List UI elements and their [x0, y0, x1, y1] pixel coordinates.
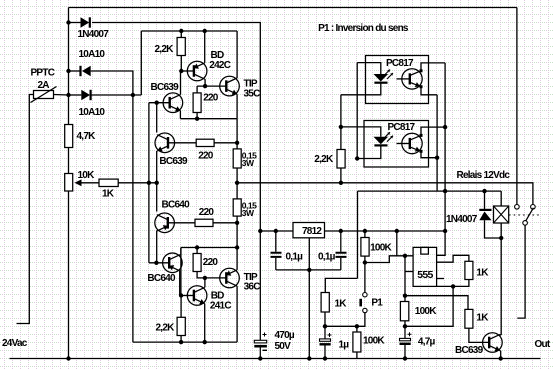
wire TIP36C base lead: [205, 277, 226, 279]
svg-text:0,1µ: 0,1µ: [318, 252, 336, 263]
wire driver top rail: [141, 30, 237, 32]
svg-text:242C: 242C: [209, 60, 230, 71]
resistor 220 no4: [193, 254, 201, 272]
wire base divider left rail: [148, 103, 150, 263]
svg-text:10A10: 10A10: [79, 107, 106, 118]
wire 220 no4 bottom: [197, 272, 205, 278]
svg-text:PPTC: PPTC: [31, 68, 55, 79]
wire emitter bus top half: [180, 118, 237, 120]
svg-text:4,7K: 4,7K: [77, 131, 97, 142]
wire BC639 no2 collector line: [156, 103, 158, 133]
svg-text:10A10: 10A10: [79, 49, 106, 60]
wire 100K left bottom: [364, 256, 366, 262]
svg-text:1µ: 1µ: [339, 340, 350, 351]
wire emitters to relay bus: [436, 190, 438, 192]
junction LED no2 anode: [339, 125, 343, 129]
junction wiper / base divider left: [147, 181, 151, 185]
svg-text:Out: Out: [535, 339, 551, 350]
wire BD242C emitter up: [204, 31, 206, 63]
diode 1N4007 main rectifier: [81, 17, 90, 27]
svg-text:BC639: BC639: [455, 345, 484, 356]
wire 2,2K opto bottom: [340, 168, 342, 183]
transistor BC640 no1: [155, 213, 175, 233]
wire 0,1u no1 top: [275, 231, 277, 252]
svg-text:220: 220: [203, 257, 219, 268]
wire base stub no2: [397, 143, 410, 145]
junction relay / BC639 collector: [499, 236, 503, 240]
junction 220 no2 / 0,15 chain: [235, 141, 239, 145]
wire LED1 cathode / LED2 anode link upper: [340, 95, 342, 150]
diode 1N4007 no2 flyback: [479, 210, 491, 220]
resistor 220 no2: [196, 139, 214, 146]
junction relay bus / +12V riser: [443, 189, 447, 193]
wire PPTC to left bus: [54, 94, 69, 97]
wire 1K lower to BC639 base: [469, 328, 489, 342]
svg-text:BC640: BC640: [162, 200, 191, 211]
wire BC640 no1 base to 220 no3: [168, 222, 195, 224]
resistor 4,7K: [65, 125, 73, 148]
svg-text:Relais 12Vdc: Relais 12Vdc: [457, 170, 511, 181]
svg-text:36C: 36C: [244, 282, 261, 293]
wire 100K third bottom: [356, 352, 358, 359]
wire driver bottom rail: [133, 341, 237, 343]
junction 555 pins 2-6 tie: [403, 254, 407, 258]
transistor BD242C: [187, 61, 207, 81]
svg-text:BC639: BC639: [151, 82, 180, 93]
wire 0,15 no1 to output bus: [236, 168, 238, 183]
wire BC640 no1 emitter down: [156, 231, 158, 263]
transistor TIP36C: [220, 268, 240, 288]
potentiometer 10K: [65, 174, 73, 192]
wire opto2 emitter: [421, 151, 437, 157]
wire BD242C base lead: [181, 70, 194, 72]
junction output bus / 0,15: [235, 181, 239, 185]
junction 10A10 no1: [66, 69, 70, 73]
junction negative drop / diode line: [131, 93, 135, 97]
wire +12V right riser: [444, 63, 446, 231]
wire 2,2K no2 bottom: [180, 336, 182, 343]
junction 1K / 1u: [323, 324, 327, 328]
potentiometer wiper arrow: [75, 179, 82, 186]
wire LED no1 cathode: [341, 84, 381, 95]
wire P1 top: [364, 263, 366, 293]
LED no1 of PC817 no1: [374, 70, 394, 83]
phototransistor PC817 no2: [402, 133, 423, 153]
svg-text:1K: 1K: [476, 268, 489, 279]
resistor 1K upper: [465, 261, 473, 279]
wire emitter chain upper: [236, 119, 238, 149]
wire 2,2K no1 bottom: [180, 56, 182, 72]
wire wiper line to divider: [118, 182, 157, 184]
wire caps ground line: [276, 269, 341, 271]
wire BC640 no2 base lead: [149, 262, 169, 264]
resistor 2,2K no1: [177, 38, 185, 56]
wire opto1 emitter: [421, 87, 437, 95]
wire 220 no2 to emitter chain: [214, 142, 237, 144]
wire relay bottom: [500, 223, 502, 238]
wire P1 bottom to gnd cap bus: [325, 313, 365, 327]
wire +12V to 555 pin line: [396, 231, 398, 256]
svg-text:35C: 35C: [244, 89, 261, 100]
junction +12V / right riser: [443, 229, 447, 233]
junction 220 no1 / emitter bus: [195, 117, 199, 121]
wire LED1 anode / LED2 cathode link: [356, 63, 358, 159]
transistor BC639 output: [483, 333, 503, 353]
svg-text:PC817: PC817: [388, 122, 416, 133]
wire BC639 no2 emitter down: [156, 151, 158, 183]
resistor 1K timing: [321, 293, 329, 313]
junction 4,7u / ground bus: [403, 356, 407, 360]
wire emitter riser: [436, 95, 438, 191]
wire BC639 emitter down: [499, 351, 502, 359]
junction emitters tied: [435, 156, 439, 160]
transistor BC639 no2: [155, 133, 175, 153]
wire BC640 no2 collector up: [180, 248, 181, 256]
junction +12V / 100K left: [363, 229, 367, 233]
wire 24Vac terminal 1 to PPTC: [17, 95, 34, 324]
wire regulator input: [260, 230, 293, 232]
junction relay bus / 1N4007 no2: [482, 189, 486, 193]
junction 100K pullup bottom: [355, 324, 359, 328]
wire right riser from top rail to switch: [516, 8, 518, 205]
resistor 100K left: [361, 238, 369, 257]
junction 10A10 no2 / PPTC: [66, 93, 70, 97]
wire 220 no1 top: [196, 86, 198, 93]
resistor 1K wiper: [99, 179, 118, 186]
wire 555 gnd / 1K upper bottom: [437, 280, 469, 287]
wire emitter chain lower: [236, 216, 238, 270]
junction rail / 2,2K no1: [179, 29, 183, 33]
wire 1N4007 no2 anode to relay bottom: [485, 220, 502, 238]
resistor 1K lower: [465, 309, 473, 328]
wire 2,2K no2 top: [180, 296, 182, 318]
junction gnd line / ground bus: [307, 356, 311, 360]
svg-text:1K: 1K: [335, 299, 348, 310]
diode 10A10 no1: [81, 66, 91, 76]
wire BC639 no1 emitter riser: [179, 111, 181, 119]
wire 100K mid bottom: [404, 321, 406, 327]
junction left bus / bottom bus: [66, 356, 70, 360]
wire base stub no1: [397, 78, 410, 80]
relay coil 12Vdc: [494, 206, 509, 223]
wire stub: [324, 292, 326, 294]
junction wiper / base divider right: [155, 181, 159, 185]
wire +12V to 555 pin 4-8: [437, 231, 446, 255]
resistor 100K third: [353, 332, 361, 352]
junction 1N4007 anode: [66, 20, 70, 24]
svg-text:220: 220: [198, 151, 214, 162]
capacitor 4,7u electrolytic: [400, 326, 412, 358]
wire BD241C emitter down: [204, 304, 206, 343]
wire LED no2 anode: [341, 127, 381, 137]
junction +12V / 0,1u no2: [339, 229, 343, 233]
wire 4,7K to 10K pot: [68, 148, 70, 174]
wire TIP36C collector down to bottom rail: [236, 286, 238, 342]
resistor 0,15 3W no1: [233, 149, 241, 168]
transistor TIP35C: [220, 76, 240, 96]
svg-text:2A: 2A: [38, 80, 50, 91]
svg-text:2,2K: 2,2K: [314, 154, 334, 165]
resistor 100K mid: [400, 302, 408, 321]
wire to 1K top: [325, 278, 357, 292]
junction BC639 emitter / ground bus: [499, 356, 503, 360]
wire BC640 no2 emitter down: [179, 271, 181, 296]
junction bottom rail / BD241C emitter: [203, 340, 207, 344]
PPTC fuse 2A: [34, 91, 54, 99]
resistor 220 no1: [193, 93, 201, 113]
svg-text:470µ: 470µ: [275, 330, 295, 341]
wire to 10A10 no2: [69, 94, 82, 96]
wire 2,2K no1 top: [180, 31, 182, 38]
capacitor 0,1u no2: [336, 231, 347, 257]
junction BC640 no1 emitter / BC640 no2 base: [154, 261, 158, 265]
svg-text:P1 : Inversion du sens: P1 : Inversion du sens: [318, 23, 409, 34]
wire relay top: [500, 191, 502, 206]
wire output bus to switch NO contact: [237, 183, 533, 205]
wire relay bus drop to 1K: [357, 191, 359, 278]
IC 555 timer box: [413, 247, 437, 286]
wire BD241C base lead: [181, 295, 194, 297]
svg-text:3W: 3W: [242, 208, 255, 218]
junction 100K left / P1 / 555 trigger: [363, 260, 367, 264]
push button P1: [359, 293, 367, 313]
optocoupler PC817 no1 box: [366, 56, 429, 104]
dotted actuator link: [509, 214, 541, 216]
wire LED no2 cathode: [357, 146, 381, 158]
wire trigger line to 555: [365, 256, 413, 263]
svg-text:BC640: BC640: [147, 273, 176, 284]
transistor BD241C: [187, 286, 207, 306]
junction 1u / ground bus: [323, 356, 327, 360]
wire TIP35C emitter down: [236, 94, 238, 119]
wire to 1N4007: [69, 22, 81, 24]
junction pin tie / 100K mid: [403, 294, 407, 298]
svg-text:1K: 1K: [476, 313, 489, 324]
wire +12V relay bus: [358, 190, 502, 192]
switch contacts SPDT: [515, 205, 536, 226]
wire 0,1u no2 bottom: [340, 258, 342, 270]
wire 220 no3 to emitter chain: [213, 222, 237, 224]
wire 10A10 no1 to negative rail drop: [91, 71, 133, 342]
wire 100K third top: [356, 326, 358, 332]
wire pin tie down: [404, 256, 406, 296]
junction BD241C collector / TIP36C base: [203, 276, 207, 280]
wire to 10A10 no1: [69, 70, 81, 72]
resistor 2,2K no2: [177, 317, 185, 335]
wire 555 output to 1K upper: [437, 255, 469, 262]
junction 555 gnd node: [451, 284, 455, 288]
junction 470u / ground bus: [258, 356, 262, 360]
wire 220 no4 top: [196, 248, 198, 254]
svg-text:50V: 50V: [275, 341, 292, 352]
wire opto1 collector: [421, 63, 445, 71]
svg-text:BC639: BC639: [159, 156, 188, 167]
wire lower bus to BD241C base node: [180, 248, 182, 296]
wire down to 470u: [259, 231, 261, 340]
wire BC639 no1 base lead: [149, 102, 170, 104]
svg-text:220: 220: [199, 207, 215, 218]
capacitor 0,1u no1: [271, 253, 282, 270]
wire BC639 collector join: [500, 333, 501, 336]
junction 220 no4 / lower bus: [195, 245, 199, 249]
junction BD241C base node: [179, 293, 183, 297]
wire 100K left top: [364, 231, 366, 238]
junction 2,2K opto / output bus: [339, 181, 343, 185]
svg-text:2,2K: 2,2K: [156, 323, 176, 334]
wire bottom ground bus: [10, 358, 541, 360]
svg-text:10K: 10K: [78, 170, 96, 181]
junction bottom rail / 2,2K no2: [179, 340, 183, 344]
svg-text:100K: 100K: [370, 243, 392, 254]
svg-text:220: 220: [203, 93, 219, 104]
wire wiper to 1K: [81, 182, 100, 184]
wire 1N4007 no2 cathode: [484, 191, 486, 209]
diode 10A10 no2: [81, 90, 90, 100]
svg-text:1K: 1K: [102, 189, 115, 200]
svg-text:100K: 100K: [415, 306, 437, 317]
wire 100K mid top: [404, 296, 406, 302]
wire switch pole to Out: [517, 225, 525, 318]
junction 7812 gnd: [307, 268, 311, 272]
wire left bus lower: [68, 191, 70, 359]
svg-text:PC817: PC817: [386, 58, 414, 69]
wire BC640 no1 collector line: [156, 183, 158, 212]
wire 555 pin 5 stub: [437, 278, 444, 280]
wire BD242C collector down: [204, 79, 206, 86]
wire 220 no1 bottom: [196, 113, 198, 119]
wire 7812 gnd to ground bus: [308, 270, 310, 359]
PPTC strike line: [31, 87, 57, 103]
phototransistor PC817 no1: [402, 69, 423, 89]
transistor BC640 no2: [163, 253, 183, 273]
regulator 7812: [293, 223, 325, 238]
wire pin tie to 1K lower: [405, 296, 468, 310]
wire to BC639 collector: [500, 238, 502, 335]
transistor BC639 no1: [163, 93, 183, 113]
wire lower emitter bus: [181, 247, 237, 249]
capacitor 1u electrolytic: [320, 326, 332, 358]
wire left bus upper: [68, 8, 70, 125]
junction 220 no3 / 0,15 chain: [235, 221, 239, 225]
svg-text:100K: 100K: [363, 336, 385, 347]
wire rail drop to diode line: [140, 31, 142, 95]
resistor 220 no3: [195, 219, 213, 226]
wire top rail +: [69, 7, 517, 9]
junction collectors tied: [443, 125, 447, 129]
wire 7812 gnd pin: [308, 238, 310, 270]
wire BD241C collector up: [204, 278, 206, 288]
svg-text:2,2K: 2,2K: [155, 44, 175, 55]
wire 555 left pin 2: [405, 271, 413, 273]
resistor 0,15 3W no2: [233, 199, 241, 216]
LED no2 of PC817 no2: [374, 132, 394, 145]
wire BC639 no1 collector riser: [180, 71, 182, 95]
junction LED anti-parallel node: [355, 156, 359, 160]
wire output bus to 0,15 no2: [236, 183, 238, 199]
svg-text:1N4007: 1N4007: [446, 214, 478, 225]
wire +24V rail from 1N4007 down to regulator input: [92, 23, 260, 232]
svg-text:7812: 7812: [302, 226, 322, 237]
svg-text:P1: P1: [371, 298, 383, 309]
junction rail / BD242C emitter: [203, 29, 207, 33]
wire rail to TIP35C collector: [236, 31, 238, 78]
svg-text:4,7µ: 4,7µ: [418, 337, 436, 348]
junction lower bus / emitter chain: [235, 245, 239, 249]
junction 100K mid / 4,7u: [403, 324, 407, 328]
junction BC639 no1 base / BC639 no2 collector: [155, 101, 159, 105]
optocoupler PC817 no2 box: [364, 121, 429, 168]
svg-text:555: 555: [417, 269, 433, 281]
resistor 2,2K opto: [337, 150, 345, 169]
junction BD242C base node: [179, 69, 183, 73]
capacitor 470u 50V electrolytic: [254, 333, 267, 359]
wire BC639 no2 base to 220 no2: [168, 142, 196, 144]
svg-text:24Vac: 24Vac: [2, 338, 28, 349]
wire 10A10 no2 output: [91, 94, 141, 96]
svg-text:0,1µ: 0,1µ: [286, 252, 304, 263]
wire gnd node down to cap bus: [405, 286, 453, 326]
wire LED no1 anode: [357, 63, 381, 74]
svg-text:3W: 3W: [242, 158, 255, 168]
wire 1K bottom: [324, 312, 326, 326]
svg-text:1N4007: 1N4007: [78, 29, 110, 40]
svg-text:241C: 241C: [210, 301, 231, 312]
junction input / 0,1u no1: [274, 229, 278, 233]
wire opto2 collector: [421, 127, 445, 135]
junction +12V / 555 feed: [395, 229, 399, 233]
junction BD242C collector / TIP35C base / 220 no1: [203, 84, 207, 88]
wire +12V bus: [325, 230, 446, 232]
wire TIP35C base line: [197, 85, 226, 87]
junction input rail / 470u: [258, 229, 262, 233]
